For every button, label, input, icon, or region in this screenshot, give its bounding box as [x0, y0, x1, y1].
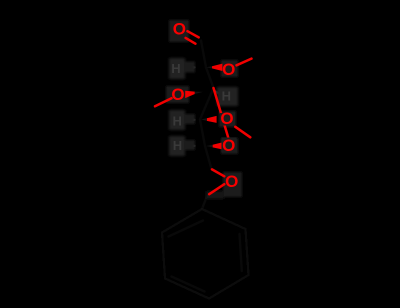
wire CH2-ring	[202, 196, 207, 209]
wire H-C4	[184, 119, 195, 122]
oxygen O2	[222, 60, 236, 79]
wire O3-CH3	[155, 98, 172, 106]
oxygen O4	[220, 109, 235, 128]
wire C1-C2	[201, 41, 206, 68]
oxygen O6	[225, 172, 238, 191]
bold wedge C3-O3	[185, 91, 195, 98]
label halo patches (jpeg-ish)	[166, 20, 242, 199]
wire C4-C5	[200, 120, 205, 147]
svg-text:H: H	[173, 113, 182, 128]
bold wedge C2-O2	[212, 64, 222, 71]
benzene ring	[162, 209, 249, 299]
wire O6-CH2	[209, 184, 224, 194]
svg-text:H: H	[173, 138, 182, 153]
bold wedge C4-O4	[207, 116, 217, 123]
svg-text:O: O	[222, 60, 235, 79]
svg-text:H: H	[171, 61, 180, 76]
svg-text:O: O	[220, 109, 233, 128]
red oxygen bonds	[155, 31, 252, 194]
bold wedge C5-O5	[213, 142, 223, 149]
carbonyl double bond C1=O upper line	[188, 31, 199, 37]
oxygen O5	[222, 136, 237, 155]
wire O2-CH3	[237, 59, 252, 66]
svg-text:H: H	[222, 89, 231, 104]
dark carbon skeleton	[162, 41, 249, 299]
svg-text:O: O	[171, 85, 184, 104]
carbonyl double bond C1=O lower line	[186, 38, 196, 44]
wire C3-O5 long ring bond	[214, 88, 229, 140]
wire C3-H	[215, 91, 222, 95]
wire O4-CH3	[235, 127, 250, 138]
wire C2-C3	[206, 67, 214, 88]
svg-text:O: O	[173, 20, 186, 39]
svg-text:O: O	[222, 136, 235, 155]
wire O6-C6	[212, 169, 224, 176]
wire H-C2	[184, 66, 195, 68]
svg-text:O: O	[225, 172, 238, 191]
wire H-C5	[184, 145, 195, 147]
oxygen O3	[171, 85, 184, 104]
H bond stubs	[184, 67, 221, 145]
wire C5-C6	[205, 146, 212, 169]
wire C3-C4	[200, 88, 214, 120]
oxygen O1 (carbonyl)	[173, 20, 186, 39]
benzene inner bonds	[240, 234, 242, 271]
